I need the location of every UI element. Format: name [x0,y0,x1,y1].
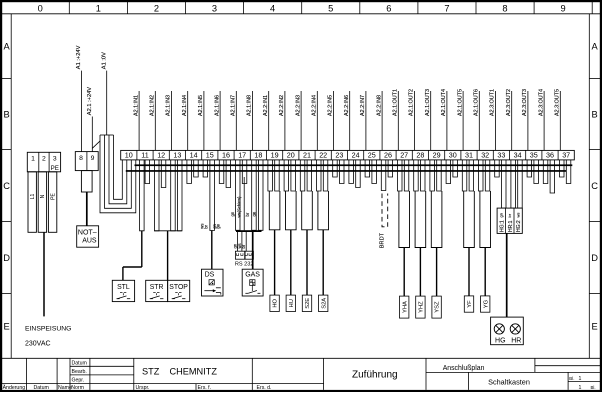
svg-text:A: A [591,42,598,52]
svg-text:ge: ge [215,223,220,228]
svg-text:A2.1:OUT4: A2.1:OUT4 [441,89,447,116]
svg-text:4: 4 [270,3,275,13]
svg-text:6: 6 [386,3,391,13]
svg-text:14: 14 [190,151,198,160]
svg-text:A2.3:OUT5: A2.3:OUT5 [555,89,561,116]
svg-text:1: 1 [579,385,582,391]
svg-text:NOT–: NOT– [78,229,97,236]
svg-text:BRDT: BRDT [379,232,385,248]
svg-text:A2.1:IN4: A2.1:IN4 [182,95,188,116]
svg-text:Schaltkasten: Schaltkasten [488,378,530,387]
svg-text:Datum: Datum [34,385,49,391]
svg-text:ws: ws [516,213,521,218]
svg-text:D: D [591,253,598,263]
svg-text:8: 8 [502,3,507,13]
svg-text:12: 12 [157,151,165,160]
svg-text:YF: YF [467,300,473,308]
svg-text:Zuführung: Zuführung [352,370,398,381]
svg-text:CHEMNITZ: CHEMNITZ [170,366,218,376]
svg-text:Gepr.: Gepr. [72,377,85,383]
svg-text:11: 11 [141,151,148,160]
svg-text:30: 30 [449,151,457,160]
svg-text:br: br [203,224,208,228]
svg-text:PE: PE [51,165,59,172]
svg-text:HG:2: HG:2 [516,220,522,232]
svg-text:32: 32 [481,151,489,160]
svg-text:E: E [3,321,9,331]
svg-text:3: 3 [53,155,57,162]
svg-text:7: 7 [444,3,449,13]
svg-text:A2.1:IN3: A2.1:IN3 [166,95,172,116]
svg-text:br: br [241,244,246,248]
svg-text:DS: DS [205,271,215,278]
svg-text:A2.3:OUT1: A2.3:OUT1 [490,89,496,116]
svg-text:br: br [245,212,250,216]
svg-text:9: 9 [91,155,95,162]
svg-text:gn: gn [499,213,504,217]
svg-text:27: 27 [400,151,408,160]
svg-text:A2.2:IN2: A2.2:IN2 [279,95,285,116]
svg-text:A2.2:IN3: A2.2:IN3 [295,95,301,116]
svg-text:29: 29 [433,151,441,160]
svg-text:A1 :+24V: A1 :+24V [76,45,82,69]
svg-text:Bl.: Bl. [569,376,574,381]
svg-text:230VAC: 230VAC [25,340,51,347]
svg-text:C: C [3,181,10,191]
svg-text:HR:1: HR:1 [508,220,514,232]
svg-text:36: 36 [546,151,554,160]
svg-text:A2.1:IN5: A2.1:IN5 [198,95,204,116]
svg-text:22: 22 [319,151,327,160]
svg-text:17: 17 [238,151,246,160]
svg-text:STL: STL [117,284,130,291]
svg-text:A2.1:IN6: A2.1:IN6 [214,95,220,116]
svg-text:EINSPEISUNG: EINSPEISUNG [25,326,71,333]
svg-text:YSZ: YSZ [435,301,441,313]
svg-text:N: N [40,194,46,198]
svg-text:24: 24 [352,151,360,160]
svg-text:A2.1:OUT2: A2.1:OUT2 [409,89,415,116]
svg-text:A2.2:IN6: A2.2:IN6 [344,95,350,116]
svg-text:B: B [3,109,9,119]
svg-text:Norm: Norm [71,385,84,391]
svg-text:S2E: S2E [305,298,311,309]
svg-text:37: 37 [562,151,570,160]
svg-text:A2.2:IN4: A2.2:IN4 [312,95,318,116]
svg-text:gn: gn [230,211,235,216]
svg-text:28: 28 [416,151,424,160]
svg-text:HG:1: HG:1 [499,220,505,232]
svg-text:L1: L1 [30,194,36,200]
svg-text:A2.2:IN8: A2.2:IN8 [376,95,382,116]
svg-text:18: 18 [254,151,262,160]
svg-text:0: 0 [38,3,43,13]
svg-text:8: 8 [79,155,83,162]
svg-text:19: 19 [271,151,279,160]
svg-text:35: 35 [530,151,538,160]
svg-text:A2.1:OUT3: A2.1:OUT3 [425,89,431,116]
svg-text:31: 31 [465,151,473,160]
svg-text:Urspr.: Urspr. [136,385,150,391]
svg-text:Datum: Datum [72,360,87,366]
svg-text:Bearb.: Bearb. [72,369,87,375]
svg-text:20: 20 [287,151,295,160]
svg-text:B: B [591,109,597,119]
svg-text:YG: YG [483,299,489,308]
svg-text:A2.1:OUT6: A2.1:OUT6 [474,89,480,116]
svg-text:13: 13 [173,151,181,160]
svg-text:25: 25 [368,151,376,160]
svg-text:15: 15 [206,151,214,160]
svg-text:Bl.: Bl. [591,385,596,390]
svg-text:Name: Name [58,385,72,391]
svg-text:S2A: S2A [321,298,327,309]
svg-text:33: 33 [497,151,505,160]
svg-text:10: 10 [125,151,133,160]
svg-text:A2.1:IN7: A2.1:IN7 [231,95,237,116]
svg-text:3: 3 [212,3,217,13]
svg-text:Ers. d.: Ers. d. [257,385,272,391]
svg-text:YHZ: YHZ [419,301,425,313]
svg-text:A2.2:IN5: A2.2:IN5 [328,95,334,116]
svg-text:A2.1:OUT1: A2.1:OUT1 [393,89,399,116]
svg-text:5: 5 [328,3,333,13]
svg-text:AUS: AUS [82,237,97,244]
svg-text:16: 16 [222,151,230,160]
svg-text:STOP: STOP [169,284,188,291]
svg-text:9: 9 [561,3,566,13]
svg-text:E: E [591,321,597,331]
svg-text:1: 1 [31,155,35,162]
svg-text:HO: HO [273,298,279,307]
svg-text:YHA: YHA [402,301,408,313]
svg-text:2: 2 [42,155,46,162]
svg-text:Anschlußplan: Anschlußplan [443,365,485,372]
svg-text:A1 :0V: A1 :0V [101,52,107,69]
svg-text:HR: HR [511,337,521,344]
svg-text:1: 1 [96,3,101,13]
svg-text:A2.3:OUT2: A2.3:OUT2 [506,89,512,116]
svg-text:A2.1:IN8: A2.1:IN8 [247,95,253,116]
svg-text:A2.1:OUT5: A2.1:OUT5 [457,89,463,116]
svg-text:2: 2 [154,3,159,13]
svg-text:D: D [3,253,10,263]
svg-text:A2.1:IN1: A2.1:IN1 [133,95,139,116]
svg-text:A2.3:OUT4: A2.3:OUT4 [538,89,544,116]
svg-text:GAS: GAS [245,271,260,278]
svg-text:STZ: STZ [142,366,160,376]
svg-text:A: A [3,42,10,52]
svg-text:PE: PE [50,193,56,200]
svg-text:ws(Schirm): ws(Schirm) [237,196,242,218]
svg-text:21: 21 [303,151,311,160]
svg-text:C: C [591,181,598,191]
svg-text:Änderung: Änderung [3,384,26,391]
svg-text:34: 34 [514,151,522,160]
svg-text:A2.2:IN1: A2.2:IN1 [263,95,269,116]
svg-text:1: 1 [579,376,582,382]
svg-text:ge: ge [252,211,257,216]
svg-text:Ers. f.: Ers. f. [198,385,212,391]
svg-text:HG: HG [495,337,506,344]
svg-text:STR: STR [150,284,164,291]
svg-text:A2.3:OUT3: A2.3:OUT3 [522,89,528,116]
svg-text:A2.1:IN2: A2.1:IN2 [150,95,156,116]
svg-text:RS 232: RS 232 [235,261,254,267]
svg-text:A2.2:IN7: A2.2:IN7 [360,95,366,116]
svg-text:A2.1 :+24V: A2.1 :+24V [87,87,93,116]
svg-text:26: 26 [384,151,392,160]
svg-text:23: 23 [335,151,343,160]
svg-text:HU: HU [289,299,295,307]
